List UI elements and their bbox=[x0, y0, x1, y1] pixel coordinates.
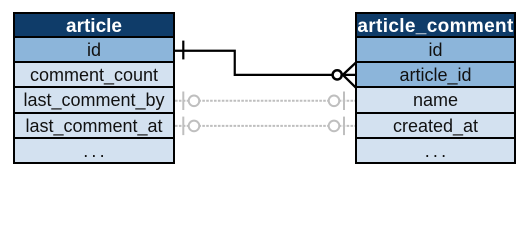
many-circle (zero-or-many) at article_comment side bbox=[333, 70, 342, 79]
row article_comment.id bbox=[357, 36, 514, 61]
row article_comment.created_at bbox=[357, 112, 514, 137]
row article.last_comment_by bbox=[15, 86, 173, 112]
gray circle right (created_at) bbox=[329, 121, 340, 132]
wire article.last_comment_at to article_comment.created_at (dashed gray) bbox=[175, 125, 355, 127]
row article.id bbox=[15, 36, 173, 61]
wire article.id to article_comment.article_id (solid FK relationship) bbox=[175, 51, 333, 75]
one-tick at article side bbox=[182, 41, 184, 60]
row article_comment.article_id bbox=[357, 61, 514, 86]
table article bbox=[13, 12, 175, 164]
table article header bbox=[15, 14, 173, 36]
table article_comment header bbox=[357, 14, 514, 36]
wire article.last_comment_by to article_comment.name (dashed gray) bbox=[175, 100, 355, 102]
row article.comment_count bbox=[15, 61, 173, 86]
gray tick left (last_comment_at) bbox=[182, 117, 184, 136]
gray tick left (last_comment_by) bbox=[182, 92, 184, 111]
gray tick right (created_at) bbox=[343, 117, 345, 136]
table article_comment bbox=[355, 12, 516, 164]
gray tick right (name) bbox=[343, 92, 345, 111]
row article_comment ellipsis bbox=[357, 137, 514, 163]
gray circle right (name) bbox=[329, 96, 340, 107]
gray circle left (last_comment_at) bbox=[189, 121, 200, 132]
crow's foot at article_comment side bbox=[343, 62, 357, 88]
gray circle left (last_comment_by) bbox=[189, 96, 200, 107]
row article.last_comment_at bbox=[15, 112, 173, 137]
row article_comment.name bbox=[357, 86, 514, 112]
row article ellipsis bbox=[15, 137, 173, 163]
